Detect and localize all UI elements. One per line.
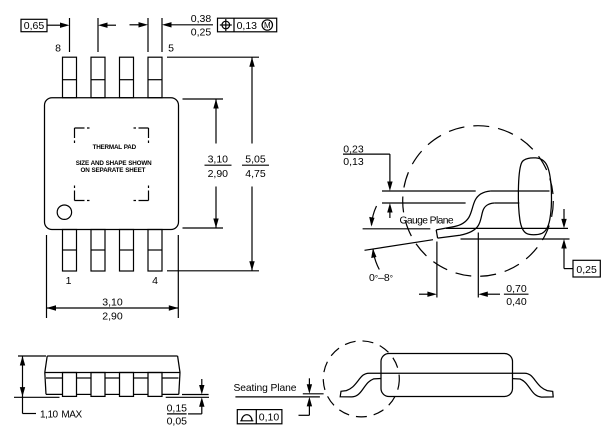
dimension 0,38/0,25 lead width (130, 13, 214, 52)
svg-text:0°–8°: 0°–8° (369, 272, 393, 284)
pin 5 (top, rightmost) (148, 57, 162, 97)
left lead (340, 373, 381, 397)
dimension 1,10 MAX (14, 356, 82, 420)
body (381, 354, 513, 397)
body end profile (518, 158, 551, 235)
svg-text:2,90: 2,90 (208, 168, 229, 180)
far-side lead tops (46, 377, 63, 379)
svg-text:Gauge Plane: Gauge Plane (400, 215, 454, 226)
near leads (63, 373, 77, 397)
extension line pin5 tip (top) (167, 56, 259, 58)
dimension 0,23/0,13 lead thickness (343, 143, 393, 218)
svg-text:0,40: 0,40 (506, 296, 527, 308)
lead bottom reference line (303, 393, 324, 395)
svg-text:2,90: 2,90 (102, 311, 123, 323)
thermal pad corner marks (dashed) (75, 128, 149, 201)
lead lower S-curve (438, 203, 495, 238)
body lower sides (45, 373, 46, 395)
svg-text:0,65: 0,65 (24, 20, 45, 32)
angle dimension 0-8 degrees (369, 206, 393, 284)
foot tip (436, 230, 437, 238)
svg-text:8: 8 (55, 43, 61, 55)
svg-text:M: M (264, 21, 271, 30)
svg-text:3,10: 3,10 (102, 297, 123, 309)
svg-text:ON SEPARATE SHEET: ON SEPARATE SHEET (81, 167, 146, 174)
gauge plane line (left) (363, 228, 431, 230)
svg-text:5: 5 (168, 43, 174, 55)
dimension 3,10/2,90 vertical (body) (183, 99, 232, 228)
svg-text:0,25: 0,25 (191, 26, 212, 38)
arrows (308, 378, 310, 384)
dimension 0,25 gauge to seating plane (561, 209, 600, 277)
gauge plane line (right) (446, 227, 568, 229)
flatness feature control frame (237, 410, 282, 424)
svg-text:1: 1 (66, 275, 72, 287)
dimension 5,05/4,75 vertical (242, 57, 269, 271)
svg-text:4: 4 (152, 275, 158, 287)
svg-text:0,25: 0,25 (576, 264, 597, 276)
detail circle (dashed) (403, 126, 554, 277)
pin 1 (bottom, leftmost) (63, 230, 77, 272)
body corner slants (45, 356, 47, 373)
seating plane line (235, 396, 320, 398)
package body outline (45, 98, 179, 230)
svg-text:Seating Plane: Seating Plane (234, 383, 297, 394)
lead bottom surface + extension (382, 202, 466, 204)
svg-text:0,15: 0,15 (167, 402, 188, 414)
svg-text:0,38: 0,38 (191, 13, 212, 25)
right lead (513, 373, 554, 397)
svg-text:4,75: 4,75 (245, 168, 266, 180)
svg-text:0,13: 0,13 (237, 20, 258, 32)
seating plane line (right) (461, 238, 570, 240)
lead upper S-curve to foot (436, 191, 490, 230)
pin 8 (top, leftmost) (63, 57, 77, 97)
dimension 0,15/0,05 standoff (166, 379, 209, 427)
svg-text:0,05: 0,05 (167, 415, 188, 427)
dimension 3,10/2,90 horizontal (body width) (47, 235, 179, 323)
dimension 0,65 pitch (21, 18, 116, 52)
detail circle (dashed) (323, 341, 399, 417)
feature control frame: position 0,13 M (218, 18, 277, 32)
body bottom segments (46, 393, 63, 395)
extension line pin4 tip (bottom) (167, 270, 259, 272)
dimension 0,70/0,40 foot length (419, 233, 529, 309)
svg-text:0,10: 0,10 (259, 412, 280, 424)
svg-text:5,05: 5,05 (245, 154, 266, 166)
svg-text:THERMAL PAD: THERMAL PAD (93, 144, 137, 151)
lead top surface + extension (382, 190, 476, 192)
pin 3 (120, 230, 134, 272)
pin 6 (120, 57, 134, 97)
body top (47, 355, 177, 357)
parting line (45, 372, 180, 374)
svg-text:0,13: 0,13 (343, 156, 364, 168)
0-8 degree slant line (365, 240, 434, 251)
svg-text:1,10 MAX: 1,10 MAX (40, 409, 82, 420)
pin 7 (91, 57, 105, 97)
pin 1 index circle (57, 205, 71, 219)
svg-text:3,10: 3,10 (208, 154, 229, 166)
pin 4 (bottom, rightmost) (148, 230, 162, 272)
pin 2 (91, 230, 105, 272)
svg-text:0,70: 0,70 (506, 283, 527, 295)
